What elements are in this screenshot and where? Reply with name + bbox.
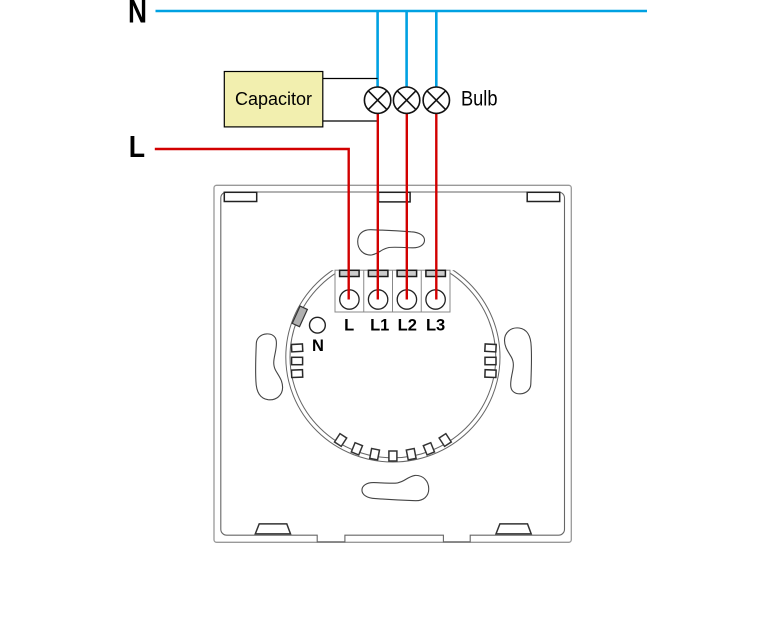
wire blue drop to bulb 2 (405, 11, 408, 92)
top-left mounting tab (224, 192, 256, 201)
wire blue drop to bulb 1 (376, 11, 379, 92)
svg-text:L: L (344, 317, 354, 335)
white mask over rim top behind terminal block (329, 246, 457, 270)
bottom bean cutout (362, 475, 429, 500)
bottom arc pin 7 (439, 434, 451, 447)
wire red drop bulb3 to L3 (435, 105, 437, 300)
svg-text:L: L (129, 129, 145, 164)
label terminal L1 (370, 317, 389, 335)
bottom arc pin 2 (351, 443, 362, 455)
right pin square 3 (485, 370, 496, 378)
label terminal L3 (426, 317, 445, 335)
left pin square 1 (291, 344, 302, 352)
terminal L1 screw slot (368, 270, 388, 276)
left bean cutout (256, 334, 283, 400)
switch back-plate outer frame (214, 185, 571, 542)
switch back-plate inner outline with bottom notches (221, 192, 565, 542)
bulb lamp 2 (393, 87, 419, 113)
bottom arc pin 6 (423, 443, 434, 455)
svg-text:L3: L3 (426, 317, 445, 335)
wire blue drop to bulb 3 (435, 11, 438, 92)
label terminal L (344, 317, 354, 335)
left pin square 3 (291, 370, 302, 378)
N terminal hole (310, 317, 326, 333)
bulb lamp 1 (364, 87, 390, 113)
svg-text:L1: L1 (370, 317, 389, 335)
bottom arc pin 1 (335, 434, 347, 447)
top-right mounting tab (527, 192, 560, 201)
terminal L2 screw slot (397, 270, 417, 276)
bottom arc pin 4 (389, 451, 397, 461)
right bean cutout (504, 328, 531, 394)
bulb lamp 3 (423, 87, 449, 113)
bottom arc pin 5 (406, 449, 416, 460)
svg-text:Capacitor: Capacitor (235, 89, 312, 109)
rotary module inner rim (290, 256, 496, 458)
bottom arc pin 3 (370, 449, 380, 460)
right pin square 2 (485, 357, 496, 364)
wire N bus (blue) (156, 10, 648, 13)
svg-text:L2: L2 (398, 317, 417, 335)
label terminal L2 (398, 317, 417, 335)
label N (neutral) (128, 0, 147, 30)
terminal L3 screw slot (426, 270, 446, 276)
top bean cutout (358, 230, 425, 255)
terminal L hole (340, 290, 359, 309)
wire capacitor top (black) (323, 78, 378, 80)
terminal block (335, 270, 450, 312)
svg-text:N: N (128, 0, 147, 30)
bottom-right trapezoid foot (496, 524, 531, 534)
terminal L2 hole (397, 290, 416, 309)
wire red drop bulb2 to L2 (406, 105, 408, 300)
terminal L screw slot (340, 270, 360, 276)
rotary module outer rim (286, 252, 500, 462)
svg-text:Bulb: Bulb (461, 88, 498, 111)
svg-text:N: N (312, 337, 324, 355)
gray tick on rim (292, 306, 307, 327)
label Bulb (461, 88, 498, 111)
capacitor box (224, 72, 322, 127)
label N terminal (312, 337, 324, 355)
terminal L1 hole (368, 290, 387, 309)
bottom-left trapezoid foot (255, 524, 290, 534)
wire red drop bulb1 to L1 (377, 105, 379, 300)
right pin square 1 (485, 344, 496, 352)
top-center mounting tab (379, 192, 411, 202)
left pin square 2 (292, 357, 303, 364)
wire capacitor bottom (black) (323, 120, 378, 122)
terminal L3 hole (426, 290, 445, 309)
wire L feed (red) (155, 149, 349, 300)
label L (live) (129, 129, 145, 164)
